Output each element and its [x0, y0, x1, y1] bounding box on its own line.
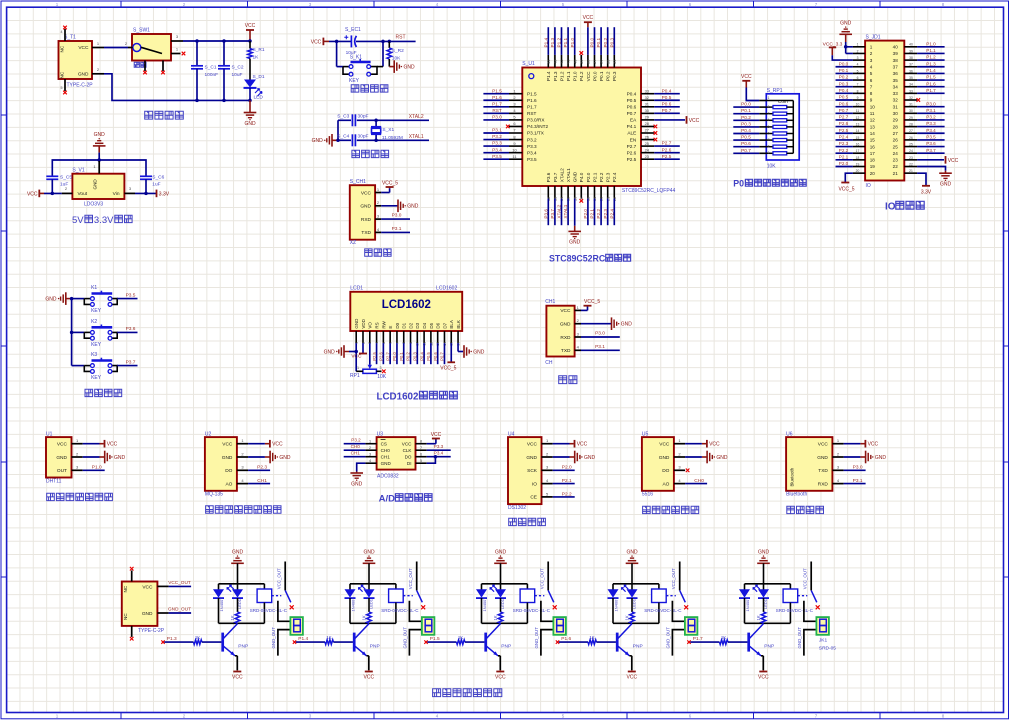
- wire net VCC_OUT (feed): [168, 580, 191, 586]
- svg-text:27: 27: [645, 128, 650, 133]
- svg-text:P3.3: P3.3: [527, 144, 537, 149]
- svg-text:DI: DI: [407, 461, 412, 466]
- resistor 1K LED (relay 4): [624, 598, 634, 623]
- connector S_T1 TYPE-C-2P: [59, 29, 94, 91]
- svg-text:Vin: Vin: [113, 191, 120, 197]
- svg-text:5: 5: [61, 86, 63, 90]
- power port VCC (relay 1): [232, 656, 243, 681]
- svg-text:26: 26: [893, 138, 899, 143]
- svg-text:11: 11: [870, 111, 875, 116]
- wire relay 2 bottom rail: [350, 622, 396, 624]
- power port VCC_5 (serial): [581, 299, 600, 310]
- svg-text:P2.0: P2.0: [583, 209, 588, 219]
- label DHT11 title: [47, 493, 113, 500]
- svg-text:GND: GND: [312, 138, 324, 144]
- svg-text:22: 22: [893, 164, 899, 169]
- svg-text:GND: GND: [817, 455, 828, 461]
- svg-text:30pF: 30pF: [358, 134, 369, 140]
- svg-text:PNP: PNP: [370, 644, 380, 650]
- ground GND (relay 1): [231, 550, 244, 584]
- svg-text:8: 8: [768, 145, 770, 149]
- wire LCD VO to pot wiper: [368, 343, 372, 369]
- svg-text:VCC_5: VCC_5: [584, 299, 600, 305]
- label ADC title: [379, 494, 432, 505]
- wires MCU bottom port pins: [543, 199, 614, 246]
- key K2: [72, 319, 138, 348]
- svg-text:MQ-135: MQ-135: [205, 492, 223, 498]
- svg-text:CH0: CH0: [381, 448, 391, 453]
- svg-text:P0.2: P0.2: [603, 37, 608, 47]
- potentiometer RP1 10K: [350, 366, 387, 380]
- svg-text:IO: IO: [866, 183, 871, 189]
- svg-text:10: 10: [856, 103, 860, 107]
- wire base P1.3 (relay 1): [161, 635, 221, 645]
- svg-text:S_X1: S_X1: [382, 127, 394, 133]
- svg-text:VCC: VCC: [868, 442, 879, 448]
- svg-text:P2.4: P2.4: [612, 172, 617, 182]
- wire GND_OUT to terminal (relay 4): [666, 627, 685, 656]
- relay switch contact (relay 2): [417, 590, 426, 609]
- svg-text:LCD1602: LCD1602: [377, 391, 419, 402]
- resistor S_R1 1K: [248, 41, 265, 80]
- svg-text:VCC_5: VCC_5: [382, 180, 398, 186]
- svg-text:37: 37: [909, 63, 913, 67]
- svg-text:S_C1: S_C1: [205, 64, 217, 70]
- svg-text:P0.7: P0.7: [662, 108, 672, 113]
- svg-text:P3.7: P3.7: [553, 172, 558, 182]
- svg-text:D3: D3: [415, 322, 420, 328]
- svg-text:GND: GND: [94, 132, 106, 138]
- svg-text:PNP: PNP: [238, 644, 248, 650]
- svg-text:10K: 10K: [767, 164, 777, 170]
- svg-text:P3.1/TX: P3.1/TX: [527, 131, 545, 136]
- svg-text:P1.7: P1.7: [926, 88, 936, 93]
- svg-text:P2.5: P2.5: [372, 352, 377, 361]
- svg-text:P0.3: P0.3: [612, 71, 617, 81]
- svg-text:VCC: VCC: [364, 674, 375, 680]
- text Bluetooth vertical (U6): [790, 467, 795, 486]
- svg-text:GND: GND: [354, 318, 359, 329]
- svg-text:U2: U2: [205, 431, 212, 437]
- connector TYPE-C-2P (relay feed): [122, 571, 169, 637]
- svg-text:27: 27: [893, 131, 899, 136]
- LED indicator (relay 5): [753, 584, 769, 609]
- svg-text:P3.1: P3.1: [926, 108, 936, 113]
- wire net P1.0 (U1): [83, 465, 105, 471]
- svg-text:4: 4: [870, 64, 873, 69]
- power port VCC_3.3 (JD1): [823, 42, 843, 56]
- svg-text:P2.3: P2.3: [603, 209, 608, 219]
- svg-text:S_C2: S_C2: [232, 64, 244, 70]
- svg-text:XTAL1: XTAL1: [563, 204, 568, 218]
- svg-text:CH1: CH1: [351, 451, 361, 456]
- svg-text:CH1: CH1: [545, 299, 555, 305]
- power port VCC (U5): [685, 440, 720, 448]
- svg-text:P0.4: P0.4: [839, 88, 849, 93]
- svg-text:23: 23: [909, 156, 913, 160]
- ground GND (relay 2): [363, 550, 376, 584]
- svg-text:GND: GND: [495, 550, 507, 556]
- svg-text:STC89C52RC: STC89C52RC: [549, 254, 606, 264]
- svg-text:VCC: VCC: [351, 353, 362, 359]
- svg-text:S_U1: S_U1: [522, 61, 535, 67]
- svg-text:P4.1: P4.1: [627, 124, 637, 129]
- svg-text:VCC: VCC: [560, 308, 571, 314]
- wire relay contact to terminal (relay 1): [278, 601, 291, 622]
- svg-text:VCC: VCC: [709, 442, 720, 448]
- svg-text:NC: NC: [60, 45, 65, 52]
- wire U3 DI join DO: [427, 455, 437, 463]
- svg-text:P0.6: P0.6: [433, 352, 438, 361]
- svg-text:P0.2: P0.2: [606, 71, 611, 81]
- svg-text:100nF: 100nF: [205, 72, 219, 78]
- wires MCU top port pins: [543, 15, 614, 55]
- svg-text:20: 20: [856, 169, 860, 173]
- connector CH1 (serial): [545, 299, 581, 366]
- svg-text:31: 31: [909, 103, 913, 107]
- svg-text:1: 1: [768, 96, 770, 100]
- ground GND (reset): [389, 60, 415, 73]
- svg-text:P2.6: P2.6: [662, 147, 672, 152]
- relay switch contact (relay 4): [680, 590, 689, 609]
- svg-text:P2.2: P2.2: [599, 172, 604, 182]
- label JK1 (relay 5): [819, 638, 836, 652]
- svg-text:P2.4: P2.4: [839, 135, 849, 140]
- svg-text:1N4007: 1N4007: [482, 597, 487, 612]
- svg-text:16: 16: [856, 142, 860, 146]
- wire relay 3 top rail: [482, 583, 528, 585]
- wire VCC_OUT (relay 4): [671, 562, 680, 591]
- svg-text:P4.3/INT2: P4.3/INT2: [527, 124, 548, 129]
- terminal block CON2 (relay 1): [290, 617, 303, 635]
- relay coil SRD-05VDC (relay 5): [783, 584, 798, 624]
- svg-text:VCC: VCC: [577, 442, 588, 448]
- svg-text:P0.5: P0.5: [662, 95, 672, 100]
- ground GND (LCD left): [324, 345, 349, 358]
- ground GND (JD1 top): [839, 21, 852, 42]
- svg-text:GND_OUT: GND_OUT: [666, 627, 671, 649]
- ground GND (JD1 pin22): [917, 167, 952, 188]
- wire serial TXD P3.1: [581, 344, 620, 350]
- svg-text:18: 18: [856, 156, 860, 160]
- transistor PNP (relay 2): [354, 624, 379, 656]
- label SRD-05VDC-SL-C (relay 2): [381, 608, 419, 613]
- crystal S_X1 11.0592M: [371, 119, 403, 143]
- ground GND (power circuit): [244, 99, 257, 127]
- no-ERC marker relay TYPE-C top: [130, 567, 134, 571]
- svg-text:GND: GND: [381, 461, 392, 466]
- svg-text:P4.0: P4.0: [579, 172, 584, 182]
- svg-text:SRD-05VDC-SL-C: SRD-05VDC-SL-C: [644, 608, 682, 613]
- svg-text:GND_OUT: GND_OUT: [168, 607, 191, 612]
- svg-text:P0: P0: [733, 179, 744, 189]
- svg-text:GND_OUT: GND_OUT: [403, 627, 408, 649]
- svg-text:TXD: TXD: [818, 468, 828, 474]
- svg-text:S_C4: S_C4: [337, 134, 349, 140]
- svg-text:1N4007: 1N4007: [351, 597, 356, 612]
- svg-text:CH0: CH0: [694, 478, 704, 484]
- svg-text:S_C5: S_C5: [60, 174, 72, 180]
- svg-text:P1.4: P1.4: [543, 37, 548, 47]
- svg-text:P1.5: P1.5: [492, 88, 502, 93]
- svg-text:VCC: VCC: [948, 158, 959, 164]
- svg-text:31: 31: [645, 102, 650, 107]
- junction at C1 top: [195, 39, 199, 43]
- svg-text:P0.5: P0.5: [741, 135, 751, 140]
- no-ERC marker (U5): [686, 469, 690, 473]
- svg-text:RXD: RXD: [560, 335, 571, 341]
- svg-text:P3.5: P3.5: [926, 135, 936, 140]
- svg-text:P1.7: P1.7: [492, 101, 502, 106]
- svg-text:35: 35: [909, 76, 913, 80]
- svg-text:BLA: BLA: [449, 320, 454, 329]
- wire crystal left vertical: [337, 120, 339, 140]
- pin T1 VCC: [92, 41, 104, 48]
- LED indicator (relay 3): [490, 584, 506, 609]
- svg-text:P1.3: P1.3: [553, 71, 558, 81]
- svg-text:1N4007: 1N4007: [745, 597, 750, 612]
- svg-text:P0.5: P0.5: [426, 352, 431, 361]
- wire relay 5 bottom rail: [745, 622, 791, 624]
- svg-text:35: 35: [605, 59, 610, 64]
- svg-text:5: 5: [857, 69, 859, 73]
- wire relay contact to terminal (relay 2): [409, 601, 422, 622]
- wire net P2.0 (U4): [553, 465, 575, 471]
- ground GND (relay 3): [494, 550, 507, 584]
- svg-text:1: 1: [857, 43, 859, 47]
- svg-text:VCC: VCC: [402, 441, 412, 446]
- svg-text:P0.6: P0.6: [741, 141, 751, 146]
- relay switch contact (relay 1): [285, 590, 294, 609]
- svg-text:P3.7: P3.7: [926, 148, 936, 153]
- svg-text:P2.1: P2.1: [562, 478, 572, 484]
- svg-text:CE: CE: [530, 495, 537, 501]
- junction reset left: [335, 40, 339, 44]
- svg-text:P3.2: P3.2: [492, 134, 502, 139]
- svg-text:P0.1: P0.1: [596, 37, 601, 47]
- svg-text:GND: GND: [324, 349, 336, 355]
- svg-text:P2.0: P2.0: [839, 161, 849, 166]
- svg-text:GND: GND: [940, 182, 952, 188]
- svg-text:5: 5: [420, 459, 422, 463]
- svg-text:P1.5: P1.5: [926, 75, 936, 80]
- svg-text:RP1: RP1: [350, 373, 360, 379]
- svg-text:JK1: JK1: [819, 638, 828, 644]
- svg-text:P3.0: P3.0: [492, 115, 502, 120]
- terminal block CON2 (relay 5): [816, 617, 829, 635]
- label IO expansion title: [885, 201, 924, 212]
- svg-text:2: 2: [369, 446, 371, 450]
- wire RXD P3.0: [381, 213, 410, 220]
- svg-text:23: 23: [893, 158, 899, 163]
- label 5V to 3.3V title: [72, 215, 132, 226]
- svg-text:P1.2: P1.2: [557, 37, 562, 47]
- svg-text:P0.0: P0.0: [839, 61, 849, 66]
- svg-text:P1.4: P1.4: [926, 68, 936, 73]
- wire VCC to RP1 com: [746, 88, 759, 101]
- svg-text:P3.0: P3.0: [853, 465, 863, 471]
- label crystal circuit title: [352, 150, 389, 157]
- diode 1N4007 (relay 3): [476, 584, 487, 624]
- svg-text:P1.0: P1.0: [573, 71, 578, 81]
- wire LCD pin1 to pot: [349, 343, 358, 371]
- power port VCC (LDO in): [27, 190, 44, 198]
- wire net P3.4 (U3 DO): [427, 451, 451, 457]
- svg-text:GND: GND: [626, 550, 638, 556]
- svg-text:14: 14: [856, 129, 860, 133]
- connector S_CH1 XZ (download port): [350, 179, 381, 246]
- svg-text:ADC0832: ADC0832: [377, 474, 399, 480]
- svg-text:23: 23: [645, 154, 650, 159]
- svg-text:P1.0: P1.0: [926, 41, 936, 46]
- svg-text:P0.2: P0.2: [406, 352, 411, 361]
- ground GND (U2): [248, 451, 291, 464]
- svg-text:GND: GND: [78, 72, 89, 78]
- svg-text:VCC_OUT: VCC_OUT: [408, 568, 413, 589]
- svg-text:11.0592M: 11.0592M: [382, 135, 403, 141]
- svg-text:LDO3V3: LDO3V3: [84, 202, 103, 208]
- svg-text:10uF: 10uF: [232, 72, 243, 78]
- power port VCC_5 (JD1 pin20): [838, 173, 854, 192]
- svg-text:P2.6: P2.6: [627, 150, 637, 155]
- svg-text:P3.7: P3.7: [550, 209, 555, 219]
- wires JD1 left P0 / P2: [836, 61, 853, 166]
- svg-text:15: 15: [870, 138, 876, 143]
- svg-text:GND: GND: [573, 171, 578, 182]
- svg-text:P3.6: P3.6: [126, 326, 136, 332]
- svg-text:P3.5: P3.5: [126, 292, 136, 298]
- junction LDO gnd-rail: [97, 158, 101, 162]
- svg-text:P1.1: P1.1: [563, 37, 568, 47]
- svg-text:XTAL2: XTAL2: [409, 114, 424, 120]
- svg-text:CLK: CLK: [403, 448, 413, 453]
- svg-text:RST: RST: [527, 111, 537, 116]
- svg-text:GND: GND: [363, 550, 375, 556]
- wire relay 3 bottom rail: [482, 622, 528, 624]
- svg-text:RST: RST: [492, 108, 502, 113]
- svg-text:P0.2: P0.2: [741, 115, 751, 120]
- svg-text:CH0: CH0: [351, 444, 361, 449]
- svg-text:P1.5: P1.5: [430, 636, 440, 642]
- svg-text:P3.7: P3.7: [126, 359, 136, 365]
- wire crystal top XTAL2: [338, 119, 429, 121]
- wire GND_OUT to terminal (relay 1): [271, 627, 290, 656]
- power port VCC (U6): [844, 440, 879, 448]
- key K1: [72, 285, 138, 314]
- svg-text:36: 36: [909, 69, 913, 73]
- svg-text:16: 16: [870, 144, 876, 149]
- svg-text:GND: GND: [351, 481, 363, 487]
- svg-text:6: 6: [857, 76, 859, 80]
- svg-text:VCC: VCC: [495, 674, 506, 680]
- power port VCC_5 (download): [381, 180, 398, 192]
- svg-text:18: 18: [870, 158, 876, 163]
- svg-text:29: 29: [909, 116, 913, 120]
- module U2 MQ-135: [205, 431, 248, 497]
- module U5 5516: [642, 431, 685, 497]
- diode 1N4007 (relay 1): [213, 584, 224, 624]
- svg-text:P3.1: P3.1: [392, 226, 402, 232]
- svg-text:P2.0: P2.0: [562, 465, 572, 471]
- svg-text:VCC: VCC: [758, 674, 769, 680]
- svg-text:17: 17: [856, 149, 860, 153]
- ground GND (keys): [45, 292, 71, 305]
- svg-text:GND: GND: [45, 297, 57, 303]
- wire relay contact to terminal (relay 5): [804, 601, 817, 622]
- svg-text:RXD: RXD: [361, 217, 372, 223]
- module U4 DS1302: [508, 431, 553, 511]
- power port VCC (P0 pullup): [741, 74, 752, 87]
- power port VCC (LCD VDD): [351, 343, 367, 359]
- svg-text:VCC_OUT: VCC_OUT: [276, 568, 281, 589]
- svg-text:VCC: VCC: [431, 432, 442, 438]
- wire GND to JD1 pins 1-2: [844, 42, 853, 53]
- svg-text:XTAL1: XTAL1: [409, 134, 424, 140]
- svg-text:15: 15: [856, 136, 860, 140]
- svg-text:P1.5: P1.5: [527, 91, 537, 96]
- svg-text:P2.5: P2.5: [627, 157, 637, 162]
- svg-text:S_R1: S_R1: [253, 47, 265, 53]
- svg-text:VCC: VCC: [272, 442, 283, 448]
- no-ERC marker relay TYPE-C bottom: [130, 637, 134, 641]
- svg-text:D1: D1: [402, 322, 407, 328]
- svg-text:P0.4: P0.4: [662, 88, 672, 93]
- resistor network S_RP1 10K: [759, 88, 799, 170]
- svg-text:41: 41: [566, 59, 571, 64]
- svg-text:6: 6: [768, 131, 770, 135]
- label 5516 title: [643, 506, 699, 513]
- svg-text:3: 3: [857, 56, 859, 60]
- svg-text:P1.2: P1.2: [559, 71, 564, 81]
- svg-text:32: 32: [893, 98, 899, 103]
- svg-text:S_SW1: S_SW1: [133, 28, 150, 34]
- svg-text:P3.6: P3.6: [546, 172, 551, 182]
- LED indicator (relay 4): [622, 584, 638, 609]
- wire net P2.2 (U4): [553, 491, 575, 497]
- svg-text:GND: GND: [621, 322, 633, 328]
- svg-text:7: 7: [857, 83, 859, 87]
- svg-text:S_RP1: S_RP1: [767, 88, 783, 94]
- svg-text:21: 21: [909, 169, 913, 173]
- no-ERC marker T1 top pin: [63, 26, 67, 30]
- resistor S_R2 10K: [387, 41, 404, 66]
- svg-text:P2.2: P2.2: [562, 491, 572, 497]
- svg-text:P1.6: P1.6: [492, 95, 502, 100]
- svg-text:30: 30: [645, 108, 650, 113]
- ground GND (U1): [83, 451, 126, 464]
- svg-text:LCD1602: LCD1602: [382, 299, 431, 311]
- svg-text:7: 7: [768, 138, 770, 142]
- svg-text:9: 9: [870, 98, 873, 103]
- ground GND (U3): [350, 463, 365, 487]
- svg-text:8: 8: [870, 91, 873, 96]
- svg-text:8: 8: [420, 439, 422, 443]
- resistor 1K LED (relay 5): [756, 598, 766, 623]
- wire TXD P3.1: [381, 226, 410, 233]
- svg-text:XTAL2: XTAL2: [559, 168, 564, 182]
- svg-text:NC: NC: [123, 613, 128, 620]
- svg-text:P2.7: P2.7: [385, 352, 390, 361]
- svg-text:26: 26: [909, 136, 913, 140]
- capacitor S_C3 30pF: [337, 114, 368, 127]
- svg-text:1: 1: [357, 366, 359, 370]
- svg-text:33: 33: [645, 88, 650, 93]
- svg-text:AO: AO: [662, 481, 669, 487]
- svg-text:29: 29: [893, 118, 899, 123]
- wires LCD data/control nets: [372, 343, 445, 364]
- svg-text:14: 14: [870, 131, 876, 136]
- svg-text:P2.3: P2.3: [606, 172, 611, 182]
